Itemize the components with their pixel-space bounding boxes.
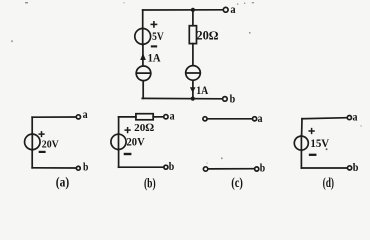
wire top-right (b): [153, 116, 163, 118]
terminal b (a): [76, 166, 80, 170]
voltage source 15V (d): [294, 129, 330, 155]
terminal b (b): [164, 165, 168, 169]
svg-text:b: b: [353, 160, 359, 174]
resistor 20ohm (b): [134, 114, 154, 134]
wire top-left (b): [119, 116, 136, 118]
wire bottom (d): [301, 167, 346, 169]
terminal a (b): [164, 115, 168, 119]
wire left (d) lower: [300, 151, 302, 168]
wire left (b) lower: [118, 150, 120, 167]
svg-text:(c): (c): [231, 176, 243, 191]
wire top (c): [208, 118, 252, 120]
terminal a (a): [76, 115, 80, 119]
current arrow 1A (down): [190, 85, 209, 97]
svg-text:b: b: [83, 159, 89, 173]
terminal b (c): [255, 167, 259, 171]
svg-text:a: a: [170, 108, 175, 122]
svg-text:b: b: [169, 159, 175, 173]
voltage source 20V (b): [111, 128, 145, 154]
node junction top: [191, 8, 195, 12]
voltage source 20V (a): [25, 132, 59, 152]
wire between 5V source and left current source: [142, 45, 144, 65]
wire between resistor and right current source: [192, 44, 194, 65]
svg-text:20V: 20V: [127, 137, 146, 149]
wire top (a): [32, 116, 75, 118]
resistor 20ohm (top circuit): [189, 26, 218, 44]
terminal top-left (c): [203, 117, 207, 121]
voltage source 5V: [135, 22, 164, 47]
wire bottom rail node b: [142, 97, 221, 99]
wire bottom (b): [119, 166, 163, 168]
svg-text:20Ω: 20Ω: [196, 29, 218, 43]
wire below right current source: [192, 81, 194, 99]
terminal a (d): [347, 116, 351, 120]
svg-text:1A: 1A: [196, 85, 209, 97]
svg-text:b: b: [230, 91, 236, 105]
svg-text:20Ω: 20Ω: [134, 122, 154, 134]
svg-text:(a): (a): [56, 176, 70, 191]
current source right (1A): [186, 66, 201, 81]
wire bottom (a): [32, 167, 75, 169]
node junction bottom: [191, 97, 195, 101]
svg-text:a: a: [83, 107, 88, 121]
wire top (d): [302, 118, 346, 119]
svg-text:a: a: [353, 110, 358, 124]
wire left (b) upper: [118, 117, 120, 134]
terminal b (top circuit): [223, 97, 228, 102]
current arrow 1A (up): [140, 53, 161, 65]
wire top rail node a: [143, 9, 223, 11]
wire right branch upper: [192, 10, 194, 26]
wire left branch upper: [142, 10, 144, 28]
wire below left current source: [142, 81, 144, 98]
terminal a (c): [253, 117, 257, 121]
terminal b (d): [348, 166, 352, 170]
current source left (1A): [136, 66, 151, 81]
svg-text:20V: 20V: [42, 138, 59, 150]
svg-text:(b): (b): [144, 176, 156, 191]
wire bottom (c): [209, 168, 254, 170]
wire left (a) lower: [31, 150, 33, 168]
wire left (d) upper: [301, 119, 303, 136]
svg-text:5V: 5V: [152, 29, 164, 43]
svg-text:(d): (d): [323, 176, 335, 191]
svg-text:1A: 1A: [148, 53, 162, 65]
svg-text:a: a: [230, 2, 235, 16]
wire left (a) upper: [31, 117, 33, 133]
terminal bottom-left (c): [203, 167, 207, 171]
svg-text:a: a: [258, 111, 263, 125]
svg-text:b: b: [260, 161, 266, 175]
terminal a (top circuit): [223, 7, 228, 12]
